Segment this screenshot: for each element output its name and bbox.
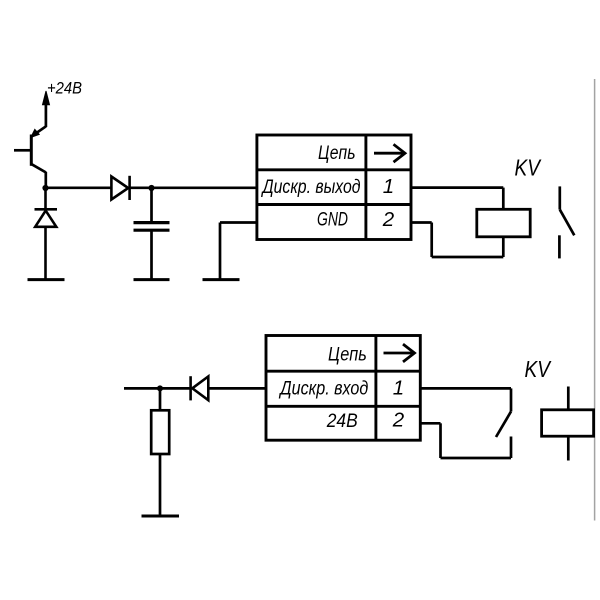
svg-text:+24В: +24В (47, 80, 82, 98)
ground (28, 278, 65, 281)
svg-text:Дискр. вход: Дискр. вход (279, 379, 369, 400)
svg-text:KV: KV (525, 356, 553, 382)
connector X2 table (266, 336, 420, 441)
ground (142, 515, 180, 518)
node A (collector output node) (42, 185, 48, 191)
connector X1 table (257, 135, 411, 240)
svg-text:1: 1 (393, 377, 404, 400)
wire coil to pin2 (411, 223, 503, 258)
relay contact KV (normally open) (559, 186, 574, 258)
wire pin1 to relay coil (411, 188, 503, 210)
svg-text:1: 1 (383, 175, 394, 198)
wire discrete input (open end) (124, 387, 191, 390)
capacitor C1 (134, 188, 170, 279)
diode VD1 (clamp to ground) (35, 188, 58, 279)
ground (134, 278, 170, 281)
relay coil KV (542, 387, 594, 461)
wire (46, 186, 112, 189)
diode VD2 (series output diode) (111, 176, 129, 200)
wire GND from connector (220, 223, 257, 279)
header arrow symbol (374, 144, 405, 162)
relay coil KV (477, 209, 530, 237)
svg-text:2: 2 (382, 208, 395, 231)
power arrow +24V (43, 91, 50, 127)
wire contact to pin2 (420, 423, 511, 458)
diode VD3 (input series diode) (191, 376, 209, 400)
node B (capacitor node) (148, 185, 154, 191)
header arrow symbol (384, 344, 415, 362)
svg-text:Цепь: Цепь (328, 345, 367, 366)
svg-text:GND: GND (317, 209, 348, 230)
wire (130, 186, 257, 189)
svg-text:Цепь: Цепь (318, 143, 356, 164)
node C (input node) (157, 385, 163, 391)
wire pin1 to contact (420, 388, 511, 411)
transistor VT1 (PNP, emitter to +24V) (14, 126, 46, 188)
svg-text:2: 2 (392, 409, 405, 432)
svg-text:24В: 24В (326, 411, 358, 432)
wire (208, 387, 267, 390)
svg-text:KV: KV (515, 155, 543, 181)
svg-text:Дискр. выход: Дискр. выход (261, 177, 361, 198)
ground (203, 278, 240, 281)
resistor R1 (151, 388, 169, 515)
relay contact KV (normally open) (496, 412, 511, 459)
